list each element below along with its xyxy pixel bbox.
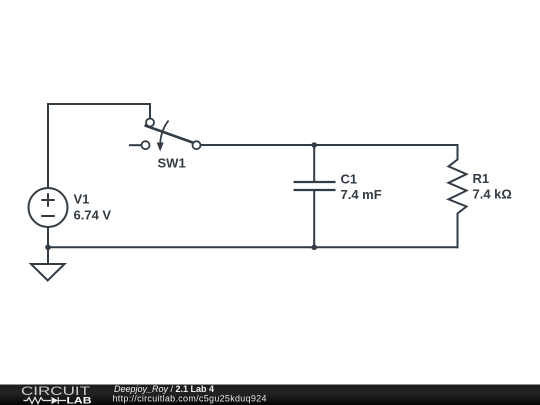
svg-text:Deepjoy_Roy / 2.1 Lab 4: Deepjoy_Roy / 2.1 Lab 4 <box>114 384 214 394</box>
wire capacitor top stem <box>313 145 315 181</box>
ground <box>31 247 65 280</box>
resistor R1 <box>449 145 467 214</box>
svg-text:SW1: SW1 <box>158 156 186 171</box>
svg-text:C1: C1 <box>341 172 358 187</box>
svg-text:7.4 mF: 7.4 mF <box>341 187 382 202</box>
node junction dot at capacitor top <box>311 142 317 148</box>
svg-text:7.4 kΩ: 7.4 kΩ <box>473 186 512 201</box>
CircuitLab logo diode triangle <box>52 397 59 404</box>
svg-text:V1: V1 <box>74 192 90 207</box>
svg-text:http://circuitlab.com/c5gu25kd: http://circuitlab.com/c5gu25kduq924 <box>113 394 267 404</box>
switch arrow head <box>157 143 164 152</box>
C1 value labels <box>341 172 382 202</box>
wire V1 bottom lead <box>47 227 49 247</box>
V1 value labels <box>74 192 112 223</box>
voltage source V1 <box>29 188 68 227</box>
svg-text:LAB: LAB <box>67 396 93 405</box>
wire top-left from V1 top up and across to switch <box>48 104 150 188</box>
wire resistor bottom lead <box>457 214 459 247</box>
switch SW1 <box>129 119 201 150</box>
wire bottom rail <box>48 246 458 248</box>
wire capacitor bottom stem <box>313 191 315 247</box>
node junction dot at V1 / ground <box>45 245 51 251</box>
svg-text:6.74 V: 6.74 V <box>74 208 112 223</box>
node junction dot at capacitor bottom <box>311 245 317 251</box>
wire from switch right terminal to resistor top <box>201 144 458 146</box>
svg-text:R1: R1 <box>473 171 490 186</box>
CircuitLab logo resistor-diode squiggle <box>24 397 67 404</box>
footer bar <box>0 385 540 405</box>
capacitor C1 <box>294 182 336 190</box>
R1 value labels <box>473 171 512 201</box>
